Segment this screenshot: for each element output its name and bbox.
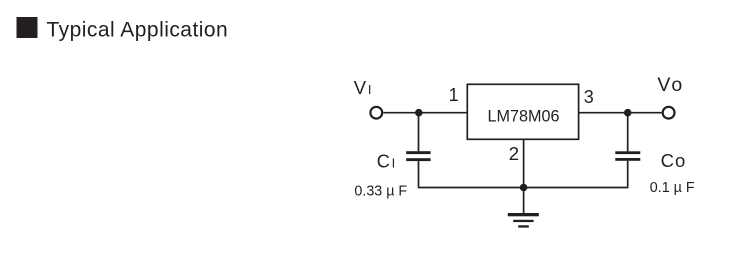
svg-text:1: 1 xyxy=(449,85,459,105)
wire ground stem xyxy=(523,188,525,215)
svg-text:3: 3 xyxy=(584,87,594,107)
svg-text:VI: VI xyxy=(354,77,372,98)
capacitor CI xyxy=(406,151,430,161)
junction ground node xyxy=(520,184,528,192)
svg-text:Vo: Vo xyxy=(657,74,682,96)
capacitor CO xyxy=(615,151,640,161)
wire input terminal to pin 1 xyxy=(383,112,467,114)
wire pin 2 down to ground rail xyxy=(523,139,525,187)
input terminal VI xyxy=(370,107,382,119)
wire pin 3 to output terminal xyxy=(579,112,662,114)
ground xyxy=(508,213,539,228)
wire ground rail xyxy=(418,187,629,189)
svg-text:Co: Co xyxy=(661,150,686,171)
svg-text:Typical Application: Typical Application xyxy=(47,18,229,41)
regulator U1 LM78M06 xyxy=(467,84,578,139)
section heading: Typical Application xyxy=(17,17,229,41)
svg-text:0.33 µ F: 0.33 µ F xyxy=(354,183,407,199)
junction output node xyxy=(624,109,632,117)
wire input node down to CI xyxy=(418,113,420,152)
svg-text:0.1 µ F: 0.1 µ F xyxy=(650,180,695,196)
svg-text:2: 2 xyxy=(509,143,519,164)
wire CO down to ground rail xyxy=(627,161,629,187)
junction input node xyxy=(415,109,423,117)
wire output node down to CO xyxy=(627,113,629,152)
svg-text:LM78M06: LM78M06 xyxy=(488,107,560,125)
output terminal VO xyxy=(663,107,675,119)
wire CI down to ground rail xyxy=(418,161,420,187)
svg-text:CI: CI xyxy=(377,152,395,172)
